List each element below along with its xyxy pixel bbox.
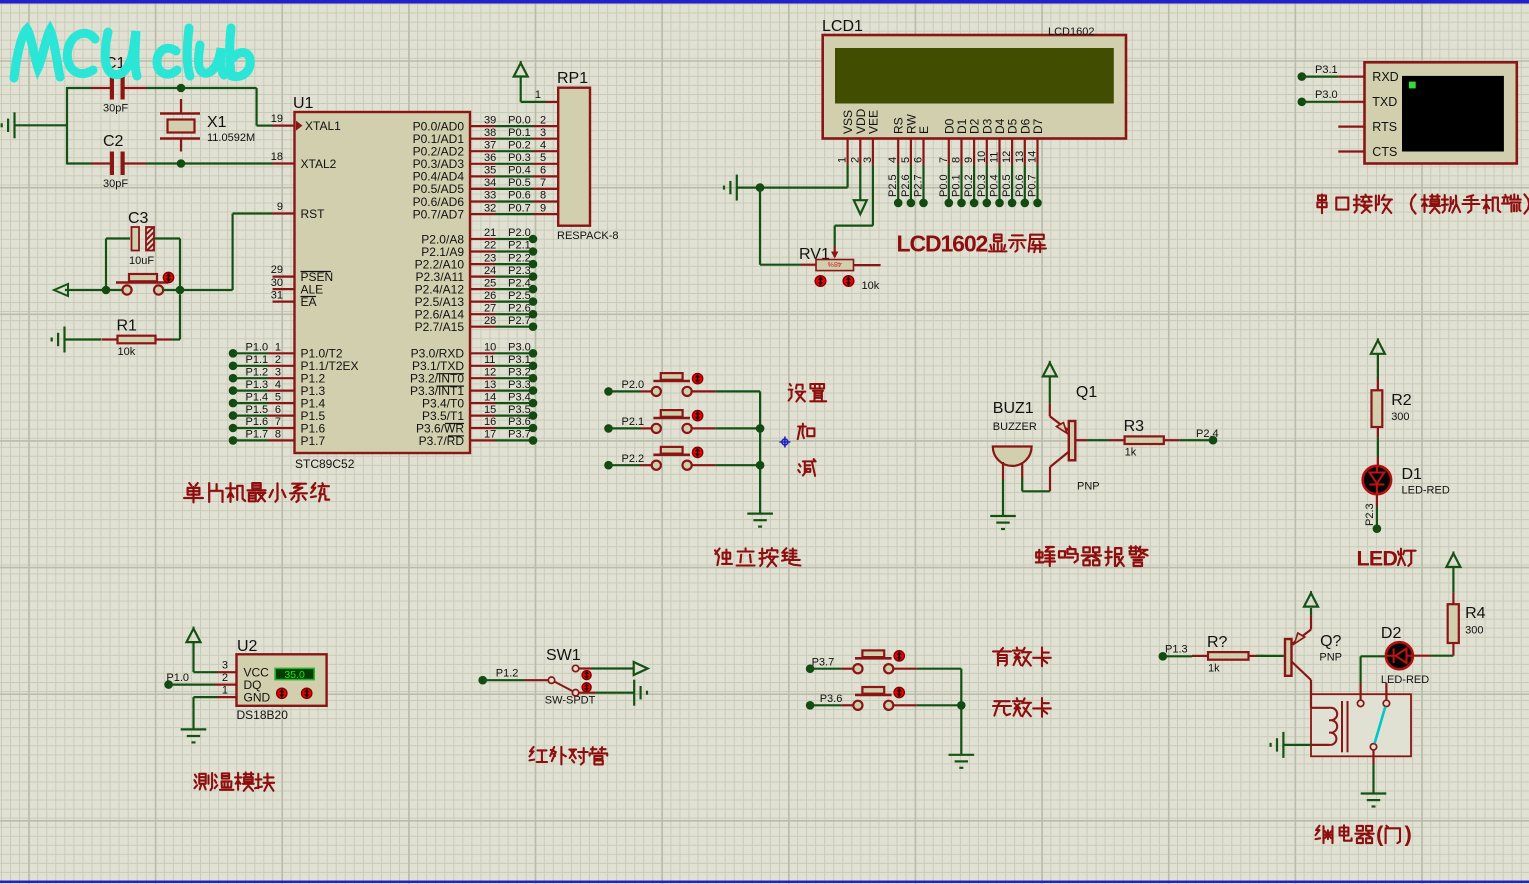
svg-text:P0.1: P0.1: [951, 174, 963, 197]
label 红外对管: [530, 747, 548, 762]
wire P2.4: [495, 288, 533, 290]
svg-text:17: 17: [484, 429, 496, 441]
MCUclub logo: [14, 29, 60, 78]
svg-text:1k: 1k: [1208, 662, 1220, 674]
svg-text:6: 6: [540, 165, 546, 177]
svg-text:LED-RED: LED-RED: [1402, 485, 1450, 497]
wire P3.1: [1298, 72, 1307, 81]
ground: [1282, 732, 1284, 758]
svg-text:P3.7: P3.7: [812, 657, 835, 669]
resistor R3: [1075, 439, 1087, 441]
wire P0.3 to LCD: [986, 165, 988, 203]
wire P0.1 to LCD: [960, 165, 962, 203]
svg-text:4: 4: [887, 157, 899, 163]
wire: [146, 87, 181, 89]
svg-text:27: 27: [484, 302, 496, 314]
ground: [633, 680, 635, 706]
wire P0.4: [495, 175, 533, 177]
wire P0.5 to LCD: [1011, 165, 1013, 203]
svg-text:RST: RST: [301, 207, 326, 221]
svg-text:P3.3: P3.3: [508, 379, 531, 391]
wire: [1049, 377, 1051, 403]
wire: [715, 427, 760, 429]
svg-text:D2: D2: [1381, 625, 1402, 642]
svg-text:P2.3: P2.3: [508, 265, 531, 277]
wire P0.7: [495, 213, 533, 215]
wire relay common to D2: [1359, 683, 1361, 700]
svg-text:P3.0: P3.0: [508, 342, 531, 354]
wire: [15, 124, 68, 126]
push button P2.1: [604, 424, 613, 433]
label 测温模块: [195, 773, 213, 790]
svg-text:RXD: RXD: [1372, 70, 1398, 84]
svg-text:VEE: VEE: [866, 110, 880, 134]
svg-text:R3: R3: [1124, 418, 1145, 435]
svg-text:14: 14: [484, 391, 496, 403]
wire P0.6 to LCD: [1024, 165, 1026, 203]
wire: [1377, 354, 1379, 378]
svg-text:BUZZER: BUZZER: [993, 421, 1037, 433]
wire P3.1: [495, 365, 533, 367]
power arrow VDD: [859, 165, 861, 201]
svg-text:PNP: PNP: [1077, 481, 1100, 493]
resistor R4: [1448, 604, 1459, 643]
svg-text:14: 14: [1027, 151, 1039, 163]
wire GND: [194, 696, 218, 698]
svg-text:9: 9: [540, 202, 546, 214]
power arrow: [187, 629, 201, 643]
svg-text:RTS: RTS: [1372, 120, 1397, 134]
wire relay to ground: [1372, 750, 1374, 764]
label 加: [798, 424, 815, 440]
wire: [579, 692, 596, 694]
svg-text:P1.0: P1.0: [166, 672, 189, 684]
svg-text:3: 3: [540, 127, 546, 139]
wire: [715, 464, 760, 466]
svg-text:P0.6: P0.6: [508, 190, 531, 202]
svg-text:U1: U1: [293, 95, 314, 112]
svg-text:XTAL2: XTAL2: [301, 157, 337, 171]
svg-text:P0.5: P0.5: [508, 177, 531, 189]
power arrow: [634, 662, 648, 675]
pin RP1.1: [546, 101, 559, 103]
wire P3.6: [495, 427, 533, 429]
svg-text:10: 10: [484, 342, 496, 354]
wire P2.1: [495, 250, 533, 252]
relay RL1: [1311, 694, 1411, 756]
wire P1.4: [229, 399, 238, 408]
svg-text:P1.6: P1.6: [246, 416, 269, 428]
wire P1.1: [229, 362, 238, 371]
svg-text:P1.2: P1.2: [246, 366, 269, 378]
pin relay NO stub: [1385, 683, 1387, 700]
wire DQ P1.0: [164, 680, 173, 689]
wire P0.1: [495, 138, 533, 140]
svg-text:P1.3: P1.3: [246, 379, 269, 391]
svg-text:P2.2: P2.2: [508, 252, 531, 264]
wire P0.6: [495, 200, 533, 202]
pin ALE: [273, 288, 295, 290]
svg-text:P3.6: P3.6: [508, 416, 531, 428]
wire P1.7: [229, 436, 238, 445]
svg-text:6: 6: [275, 404, 281, 416]
wire: [65, 289, 122, 291]
wire: [917, 668, 962, 670]
svg-text:GND: GND: [244, 690, 271, 704]
svg-text:P2.7: P2.7: [913, 174, 925, 197]
svg-text:): ): [1405, 822, 1412, 847]
wire VSS: [846, 165, 848, 188]
ground: [990, 515, 1016, 517]
svg-text:C3: C3: [128, 210, 149, 227]
svg-text:P0.4: P0.4: [989, 174, 1001, 197]
svg-text:E: E: [917, 126, 931, 134]
wire: [1377, 427, 1379, 437]
ground: [13, 112, 15, 138]
LCD display LCD1: [823, 35, 1126, 139]
svg-text:DS18B20: DS18B20: [237, 708, 289, 722]
svg-text:P1.5: P1.5: [246, 404, 269, 416]
resistor R?: [1192, 655, 1208, 657]
svg-text:R1: R1: [117, 318, 138, 335]
wire: [146, 162, 181, 164]
wire P3.3: [495, 390, 533, 392]
svg-text:LCD1602: LCD1602: [897, 231, 988, 257]
pin terminal TXD: [1338, 101, 1364, 103]
svg-text:P1.7: P1.7: [246, 429, 269, 441]
svg-text:P2.1: P2.1: [508, 240, 531, 252]
wire: [917, 704, 962, 706]
push button P2.2: [604, 461, 613, 470]
pin terminal RTS: [1338, 125, 1364, 127]
svg-text:1k: 1k: [1125, 447, 1137, 459]
wire: [105, 239, 107, 291]
svg-text:P3.1: P3.1: [508, 354, 531, 366]
wire: [1256, 655, 1283, 657]
svg-text:P2.0: P2.0: [622, 379, 645, 391]
wire P1.3: [229, 386, 238, 395]
power arrow: [54, 284, 68, 296]
pin PSEN: [273, 276, 295, 278]
svg-text:32: 32: [484, 202, 496, 214]
svg-text:35: 35: [484, 165, 496, 177]
svg-text:8: 8: [540, 190, 546, 202]
svg-text:7: 7: [938, 157, 950, 163]
svg-text:10: 10: [976, 151, 988, 163]
svg-text:31: 31: [271, 290, 283, 302]
wire P2.4: [1180, 439, 1213, 441]
wire P2.6: [495, 313, 533, 315]
svg-text:P3.2: P3.2: [508, 366, 531, 378]
svg-text:4: 4: [275, 379, 281, 391]
node RST junction: [102, 286, 111, 295]
wire bus to ground: [759, 391, 761, 513]
wire P1.2: [229, 374, 238, 383]
svg-text:39: 39: [484, 114, 496, 126]
svg-text:5: 5: [900, 157, 912, 163]
svg-text:SW1: SW1: [546, 647, 581, 664]
svg-text:30pF: 30pF: [103, 103, 128, 115]
svg-text:P0.3: P0.3: [508, 152, 531, 164]
svg-text:13: 13: [484, 379, 496, 391]
ground: [736, 175, 738, 201]
svg-text:23: 23: [484, 252, 496, 264]
svg-text:19: 19: [271, 113, 283, 125]
svg-text:10k: 10k: [862, 280, 880, 292]
svg-text:5: 5: [540, 152, 546, 164]
wire VCC: [192, 643, 194, 673]
svg-text:P0.6: P0.6: [1014, 174, 1026, 197]
svg-text:RESPACK-8: RESPACK-8: [557, 230, 619, 242]
pin terminal CTS: [1338, 150, 1364, 152]
wire P3.0: [1298, 98, 1307, 107]
svg-text:(: (: [1376, 822, 1384, 847]
svg-text:LCD1602: LCD1602: [1048, 26, 1094, 38]
svg-text:Q?: Q?: [1320, 633, 1341, 650]
wire P3.4: [495, 402, 533, 404]
svg-text:P0.7: P0.7: [508, 202, 531, 214]
wire bus: [960, 669, 962, 755]
svg-text:P2.4: P2.4: [508, 277, 531, 289]
ground: [949, 754, 975, 756]
svg-text:13: 13: [1014, 151, 1026, 163]
wire relay ground: [1283, 744, 1311, 746]
svg-text:P2.2: P2.2: [622, 453, 645, 465]
wire P2.7: [495, 326, 533, 328]
svg-text:LCD1: LCD1: [822, 18, 863, 35]
svg-text:P2.5: P2.5: [887, 174, 899, 197]
svg-text:24: 24: [484, 265, 496, 277]
wire: [1452, 592, 1454, 604]
push button P2.0: [604, 387, 613, 396]
svg-text:22: 22: [484, 240, 496, 252]
ground: [747, 512, 773, 514]
wire P2.2: [495, 263, 533, 265]
wire P0.5: [495, 188, 533, 190]
wire P3.0: [495, 352, 533, 354]
svg-text:15: 15: [484, 404, 496, 416]
svg-text:P0.4: P0.4: [508, 165, 531, 177]
power arrow: [1371, 340, 1385, 354]
svg-text:P2.6: P2.6: [900, 174, 912, 197]
svg-text:8: 8: [275, 429, 281, 441]
svg-text:X1: X1: [207, 114, 227, 131]
svg-text:RP1: RP1: [557, 70, 588, 87]
wire: [1413, 655, 1431, 657]
svg-text:2: 2: [540, 114, 546, 126]
wire VEE: [872, 165, 874, 226]
svg-text:P3.6: P3.6: [820, 693, 843, 705]
label 单片机最小系统: [184, 483, 203, 502]
temperature sensor U2 DS18B20: [237, 654, 327, 706]
wire P0.0 to LCD: [948, 165, 950, 203]
svg-text:P0.7/AD7: P0.7/AD7: [413, 207, 465, 221]
wire P3.5: [495, 415, 533, 417]
svg-text:P2.5: P2.5: [508, 290, 531, 302]
svg-text:3: 3: [275, 366, 281, 378]
power arrow: [1446, 554, 1460, 568]
svg-text:8: 8: [951, 157, 963, 163]
pin terminal RXD: [1338, 75, 1364, 77]
wire P2.3: [495, 276, 533, 278]
svg-text:R?: R?: [1207, 634, 1228, 651]
push button P3.6: [806, 701, 815, 710]
svg-text:P0.0: P0.0: [508, 114, 531, 126]
svg-text:1: 1: [222, 685, 228, 697]
svg-text:10uF: 10uF: [129, 255, 154, 267]
svg-text:26: 26: [484, 290, 496, 302]
svg-text:P0.2: P0.2: [963, 174, 975, 197]
label 无效卡: [993, 701, 1011, 715]
svg-text:11.0592M: 11.0592M: [207, 132, 255, 144]
svg-text:18: 18: [271, 151, 283, 163]
wire P2.5: [495, 301, 533, 303]
LED D2 LED-RED: [1386, 642, 1413, 669]
svg-text:35.0: 35.0: [284, 669, 305, 681]
svg-text:29: 29: [271, 264, 283, 276]
wire P2.5 to LCD: [897, 165, 899, 203]
svg-text:30: 30: [271, 277, 283, 289]
svg-text:SW-SPDT: SW-SPDT: [545, 695, 596, 707]
svg-text:11: 11: [484, 354, 495, 366]
svg-text:D7: D7: [1031, 118, 1045, 134]
svg-text:Q1: Q1: [1076, 384, 1097, 401]
svg-text:LED-RED: LED-RED: [1381, 674, 1429, 686]
svg-text:P3.7: P3.7: [508, 429, 531, 441]
svg-text:11: 11: [989, 152, 1001, 163]
wire P2.0: [495, 238, 533, 240]
svg-text:P0.2: P0.2: [508, 139, 531, 151]
svg-text:48%: 48%: [828, 260, 842, 267]
svg-text:300: 300: [1391, 411, 1409, 423]
wire P1.0: [229, 349, 238, 358]
svg-text:XTAL1: XTAL1: [305, 119, 341, 133]
svg-text:P0.7: P0.7: [1027, 174, 1039, 197]
svg-text:PNP: PNP: [1319, 652, 1342, 664]
svg-text:1: 1: [535, 89, 541, 101]
svg-text:2: 2: [275, 354, 281, 366]
svg-text:P1.4: P1.4: [246, 391, 269, 403]
pin XTAL1: [273, 124, 295, 126]
svg-text:12: 12: [484, 366, 496, 378]
push button RESET: [116, 281, 168, 284]
svg-text:9: 9: [963, 157, 975, 163]
virtual terminal (serial receive): [1365, 62, 1517, 163]
wire P2.7 to LCD: [922, 165, 924, 203]
wire P0.3: [495, 163, 533, 165]
wire: [579, 667, 592, 669]
resistor pack RP1 RESPACK-8: [558, 88, 590, 226]
svg-text:28: 28: [484, 315, 496, 327]
resistor R1: [63, 327, 65, 353]
svg-text:2: 2: [849, 157, 861, 163]
svg-text:P2.3: P2.3: [1364, 503, 1376, 526]
power arrow: [1310, 615, 1312, 629]
svg-text:P3.0: P3.0: [1315, 89, 1338, 101]
svg-text:LED: LED: [1357, 547, 1398, 571]
svg-text:P3.4: P3.4: [508, 391, 531, 403]
svg-text:U2: U2: [237, 638, 258, 655]
svg-text:1: 1: [275, 342, 281, 354]
svg-text:P0.3: P0.3: [976, 174, 988, 197]
svg-text:P0.1: P0.1: [508, 127, 531, 139]
ground: [1361, 792, 1387, 794]
svg-text:R4: R4: [1465, 605, 1486, 622]
svg-text:3: 3: [222, 660, 228, 672]
svg-text:P1.7: P1.7: [301, 434, 326, 448]
svg-text:37: 37: [484, 139, 496, 151]
wire: [66, 87, 68, 165]
chip U1 STC89C52: [295, 112, 471, 453]
svg-text:P1.3: P1.3: [1165, 644, 1188, 656]
LED D1 LED-RED: [1363, 466, 1391, 494]
power arrow: [514, 63, 528, 77]
svg-text:STC89C52: STC89C52: [295, 457, 355, 471]
wire P3.7: [495, 439, 533, 441]
svg-text:36: 36: [484, 152, 496, 164]
pin XTAL2: [273, 162, 295, 164]
ground: [181, 728, 207, 730]
svg-text:9: 9: [277, 201, 283, 213]
wire: [715, 390, 760, 392]
wire P1.6: [229, 424, 238, 433]
svg-text:30pF: 30pF: [103, 178, 128, 190]
svg-text:P2.7: P2.7: [508, 315, 531, 327]
svg-text:5: 5: [275, 391, 281, 403]
label 继电器(门): [1316, 826, 1333, 843]
svg-text:C2: C2: [103, 133, 124, 150]
svg-text:34: 34: [484, 177, 496, 189]
svg-text:P0.0: P0.0: [938, 174, 950, 197]
svg-text:P2.7/A15: P2.7/A15: [415, 320, 465, 334]
wire P0.2 to LCD: [973, 165, 975, 203]
svg-text:P0.5: P0.5: [1001, 174, 1013, 197]
svg-text:P1.2: P1.2: [496, 667, 519, 679]
svg-text:1: 1: [837, 157, 849, 163]
svg-text:R2: R2: [1391, 392, 1412, 409]
svg-text:300: 300: [1465, 625, 1483, 637]
svg-text:TXD: TXD: [1372, 95, 1397, 109]
push button P3.7: [806, 664, 815, 673]
wire P3.2: [495, 377, 533, 379]
capacitor C2: [92, 162, 111, 164]
svg-text:4: 4: [540, 139, 546, 151]
pin RST: [273, 212, 295, 214]
svg-text:P3.1: P3.1: [1315, 64, 1338, 76]
label 串口接收（模拟手机端）: [1317, 194, 1326, 213]
svg-text:6: 6: [913, 157, 925, 163]
wire P1.3: [1159, 652, 1168, 661]
origin marker: [782, 439, 788, 445]
svg-text:7: 7: [275, 416, 281, 428]
svg-text:16: 16: [484, 416, 496, 428]
svg-text:21: 21: [484, 227, 496, 239]
label 蜂鸣器报警: [1036, 547, 1055, 566]
svg-text:D1: D1: [1402, 466, 1423, 483]
svg-text:7: 7: [540, 177, 546, 189]
power arrow: [1043, 363, 1057, 377]
wire P0.4 to LCD: [998, 165, 1000, 203]
wire P1.2: [478, 676, 487, 685]
wire P2.6 to LCD: [910, 165, 912, 203]
svg-text:P2.0: P2.0: [508, 227, 531, 239]
wire P2.3: [1376, 495, 1378, 507]
label 有效卡: [993, 648, 1011, 666]
relay switch arm: [1375, 707, 1386, 744]
wire P0.2: [495, 150, 533, 152]
svg-text:P2.1: P2.1: [622, 416, 645, 428]
svg-text:10k: 10k: [118, 346, 136, 358]
